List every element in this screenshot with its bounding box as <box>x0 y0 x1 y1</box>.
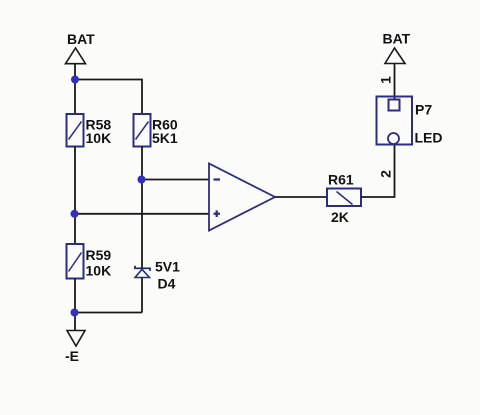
wire R58 bottom to mid junction <box>74 147 76 245</box>
node junction top-left <box>71 76 79 84</box>
wire zener bottom to bottom rail <box>141 278 143 313</box>
connector P7 <box>377 97 443 146</box>
op-amp U1 <box>209 164 275 231</box>
svg-text:2: 2 <box>378 170 394 178</box>
svg-text:2K: 2K <box>331 209 349 225</box>
wire R59 bottom to ground node <box>74 279 76 331</box>
resistor R61 <box>327 172 361 226</box>
svg-text:LED: LED <box>415 130 443 146</box>
svg-text:5K1: 5K1 <box>152 130 178 146</box>
ground -E symbol <box>65 331 85 365</box>
svg-text:5V1: 5V1 <box>155 259 180 275</box>
wire R60 bottom to minus-node <box>141 147 143 269</box>
zener diode D4 <box>135 259 180 292</box>
resistor R59 <box>67 244 112 279</box>
wire op-amp output to R61 <box>275 196 327 198</box>
wire top horizontal to R60 branch <box>75 80 142 115</box>
svg-text:BAT: BAT <box>67 31 95 47</box>
wire plus input <box>75 213 209 215</box>
node junction minus <box>138 176 146 184</box>
wire R61 to P7 pin 2 <box>361 145 395 198</box>
wire BAT to top junction <box>74 64 76 114</box>
power symbol BAT (right) <box>383 31 411 64</box>
node junction left rail mid <box>71 210 79 218</box>
wire minus input <box>142 179 209 181</box>
node junction bottom-left <box>71 309 79 317</box>
svg-text:10K: 10K <box>86 130 112 146</box>
wire BAT to P7 pin 1 <box>394 64 396 100</box>
svg-text:R61: R61 <box>328 172 354 188</box>
svg-text:D4: D4 <box>158 276 176 292</box>
svg-text:BAT: BAT <box>383 31 411 47</box>
resistor R60 <box>134 114 178 147</box>
svg-text:1: 1 <box>378 76 394 84</box>
wire bottom horizontal <box>75 312 142 314</box>
svg-text:10K: 10K <box>86 263 112 279</box>
resistor R58 <box>67 114 112 147</box>
svg-text:-E: -E <box>65 348 79 364</box>
power symbol BAT (left) <box>66 31 96 64</box>
svg-text:R59: R59 <box>86 247 112 263</box>
svg-text:P7: P7 <box>415 102 432 118</box>
